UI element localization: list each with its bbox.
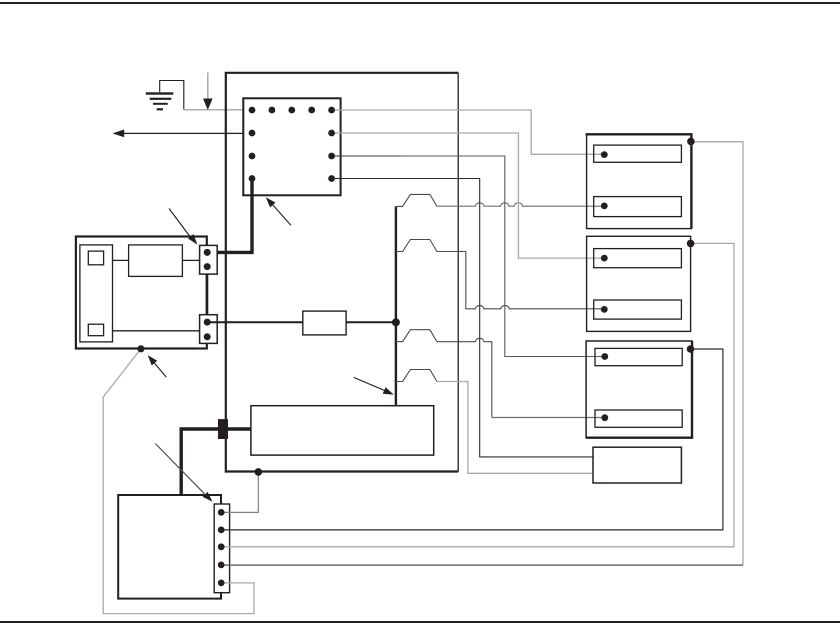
wire row4 to box D gray (437, 382, 593, 474)
connector J1 pins (249, 107, 335, 182)
node lamp C corner (687, 345, 695, 353)
wire strip pin5 loop to left module node (103, 349, 254, 614)
lamp C lower element (595, 410, 682, 427)
lamp A upper element (594, 145, 682, 162)
connector P2 pins (204, 319, 211, 341)
wire left arrow out (123, 132, 252, 134)
main unit inner bottom block (251, 406, 434, 455)
wire row3 descent (437, 338, 492, 417)
node lamp A corner (687, 138, 695, 146)
wire3 J1 dark segment (332, 155, 401, 157)
lamp unit A heavy edges (586, 134, 692, 228)
wire3 to lamp C upper (401, 156, 605, 357)
node lamp B corner (687, 240, 695, 248)
node on left module bottom edge (137, 345, 144, 352)
fuse block on main unit edge (218, 419, 228, 439)
connector J1 box (243, 98, 340, 195)
arrow annotation at harness trunk (354, 377, 394, 394)
wire loom bump row1 (396, 194, 437, 206)
lamp A pins (601, 151, 608, 209)
arrow annotation at J1 bottom (266, 197, 291, 225)
left module center block (129, 245, 183, 277)
wire lamp A return (691, 142, 743, 565)
relay box (303, 311, 346, 335)
node harness junction (392, 318, 400, 326)
arrow annotation at left module connector (169, 209, 197, 245)
wire row2 to lamp B lower (437, 252, 604, 309)
arrow annotation down at ground wire (203, 73, 213, 111)
lamp unit A box (587, 134, 692, 228)
lamp B pins (601, 255, 608, 313)
lamp unit C heavy edges (586, 341, 692, 438)
wire loom bump row4 (396, 370, 437, 382)
box D (593, 447, 681, 483)
left module box (76, 237, 207, 349)
wire4 J1 to box D (332, 179, 594, 457)
left module tall block (80, 245, 113, 342)
wire P2 to relay box to trunk node (207, 321, 396, 323)
wire1 J1 to lamp A upper (332, 110, 605, 154)
ground (146, 81, 184, 111)
top page border (0, 2, 840, 4)
left module square S2 (88, 324, 103, 336)
connector strip box (214, 504, 229, 593)
wire ground to connector pin (184, 109, 252, 111)
wire row3 to lamp C lower (492, 417, 605, 419)
lamp unit B box (587, 236, 691, 331)
left module square S1 (88, 251, 103, 265)
wire tall block to center block (113, 259, 129, 261)
connector strip pins (218, 509, 225, 586)
lamp unit C box (586, 341, 692, 438)
wire bold harness trunk (395, 206, 397, 405)
wire bold P1 to P2 (206, 274, 209, 315)
arrow annotation at connector strip (155, 444, 212, 502)
wire lamp A return bottom run (222, 564, 743, 566)
lamp A lower element (594, 197, 682, 217)
wire bold J1 to left module connector (207, 179, 252, 253)
main unit box (226, 73, 458, 472)
node on main unit bottom edge (254, 468, 262, 476)
wire center block to connector P1 (182, 259, 199, 261)
arrow head left out (113, 130, 125, 138)
connector P1 box (200, 245, 218, 274)
bottom module box (118, 495, 221, 599)
arrow annotation at left module node (148, 355, 167, 377)
wire2 J1 to lamp B upper (332, 133, 605, 258)
lamp C upper element (595, 348, 682, 365)
bottom page border (0, 621, 840, 623)
wire loom bump row2 (396, 240, 437, 252)
lamp C pins (601, 353, 608, 421)
lamp B lower element (594, 300, 682, 319)
connector P1 pins (204, 249, 211, 270)
wire bold battery feed (181, 429, 251, 495)
connector P2 box (200, 315, 218, 344)
wire strip pin1 to case node (221, 472, 258, 513)
lamp B upper element (594, 249, 682, 268)
wire loom bump row3 (396, 330, 437, 342)
wire lamp C return (222, 349, 723, 530)
wire tall block to connector P2 (113, 330, 200, 332)
wire lamp B return (222, 243, 734, 546)
wire row1 to lamp A lower (437, 203, 604, 206)
